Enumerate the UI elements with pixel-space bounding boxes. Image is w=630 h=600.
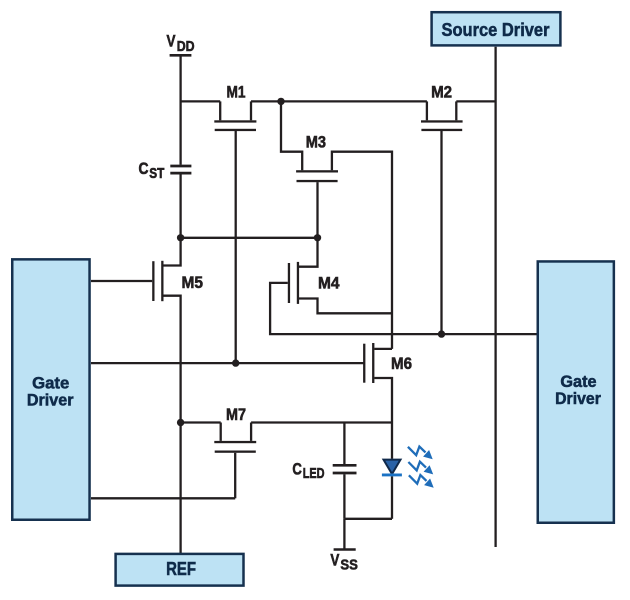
svg-text:M1: M1	[227, 83, 246, 101]
svg-text:Driver: Driver	[555, 390, 601, 408]
svg-text:M4: M4	[318, 275, 340, 293]
svg-text:ST: ST	[149, 166, 164, 182]
svg-text:Gate: Gate	[560, 373, 596, 391]
svg-text:M7: M7	[226, 406, 246, 424]
svg-text:M3: M3	[306, 134, 326, 152]
svg-text:C: C	[139, 159, 149, 178]
svg-text:DD: DD	[177, 39, 195, 55]
svg-text:REF: REF	[166, 558, 196, 579]
svg-text:V: V	[167, 32, 176, 50]
svg-text:M5: M5	[182, 274, 204, 292]
svg-text:SS: SS	[340, 558, 358, 574]
svg-text:Driver: Driver	[27, 392, 74, 410]
svg-text:Source Driver: Source Driver	[442, 19, 550, 40]
svg-text:C: C	[292, 459, 302, 478]
svg-text:M2: M2	[431, 83, 452, 101]
svg-text:LED: LED	[303, 466, 325, 482]
svg-text:Gate: Gate	[32, 374, 69, 392]
svg-text:V: V	[330, 552, 339, 570]
svg-text:M6: M6	[391, 355, 412, 373]
